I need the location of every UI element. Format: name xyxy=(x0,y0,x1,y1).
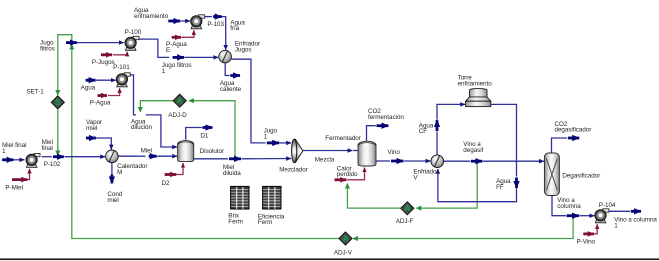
wire Vino a columna from Degasificador xyxy=(552,195,566,216)
node Agua CF bar xyxy=(436,120,439,131)
wire D2 to Disolutor xyxy=(177,163,184,174)
wire Agua CF to Torre enfriamiento xyxy=(437,104,465,119)
svg-text:CO2fermentación: CO2fermentación xyxy=(368,108,404,121)
wire P-Jugos to P-100 xyxy=(113,52,127,55)
svg-text:Vino acolumna: Vino acolumna xyxy=(557,197,581,210)
node Agua caliente outlet bar xyxy=(230,74,240,77)
svg-text:CalentadorM: CalentadorM xyxy=(117,163,147,176)
wire ADJ-V output up to Jugo filtros stream xyxy=(72,45,339,239)
node Agua feed bar xyxy=(86,79,96,82)
node Jugo filtros feed bar xyxy=(66,41,77,44)
svg-text:Mielfinal: Mielfinal xyxy=(42,139,53,152)
node P-Jugos feed bar xyxy=(101,53,112,56)
wire Miel diluida into Mezclador xyxy=(242,158,292,160)
heat-exchanger Enfriador Jugos xyxy=(219,50,232,63)
wire Agua feed to P-101 xyxy=(96,79,116,81)
svg-text:Mezcla: Mezcla xyxy=(315,157,335,164)
wire P-100 outlet to Jugo filtros 1 line xyxy=(139,39,169,57)
wire Jugo 1 into Mezclador xyxy=(280,142,292,144)
wire ADJ-V measure from Vino a columna stream xyxy=(353,217,573,239)
column Degasificador xyxy=(544,153,559,196)
wire P-Agua to P-101 xyxy=(108,88,120,95)
svg-text:AguaFF: AguaFF xyxy=(496,178,511,191)
wire CO2 degasificador out of Degasificador xyxy=(552,138,568,153)
wire CO2 fermentacion out of Fermentador xyxy=(367,126,376,141)
svg-text:AguaCF: AguaCF xyxy=(419,122,434,135)
wire Agua enfriamiento feed to P-103 xyxy=(181,20,190,22)
node Calor perdido feed bar xyxy=(335,178,347,181)
node Vino a columna bar xyxy=(567,214,579,217)
svg-text:P-AguaE: P-AguaE xyxy=(166,41,187,54)
wire ADJ-D measure from Miel diluida stream xyxy=(189,101,235,159)
node D1 outlet bar xyxy=(203,126,213,129)
wire P-Miel to P-102 xyxy=(26,169,30,180)
wire Agua CF up from Enfriador V xyxy=(436,132,438,155)
node P-Vino feed bar xyxy=(583,232,594,235)
svg-text:Miel: Miel xyxy=(141,147,152,154)
wire P-101 outlet Agua dilucion xyxy=(128,75,136,115)
wire ADJ-F output up to Calor perdido stream xyxy=(347,184,400,209)
node Miel bar xyxy=(149,155,157,158)
svg-text:Calorperdido: Calorperdido xyxy=(337,165,358,178)
svg-text:A: A xyxy=(343,234,349,243)
node Agua FF bar xyxy=(515,178,518,189)
table Brix Ferm xyxy=(231,186,249,209)
wire Vino a columna into P-104 xyxy=(580,215,595,217)
table Eficiencia Ferm xyxy=(263,186,281,209)
pump P-103 xyxy=(191,15,205,29)
svg-text:Vino adegasif: Vino adegasif xyxy=(463,141,483,154)
svg-text:Fermentador: Fermentador xyxy=(325,135,361,142)
svg-text:Disolutor: Disolutor xyxy=(200,148,224,155)
wire Agua FF return to Enfriador V xyxy=(438,169,517,202)
heat-exchanger Enfriador V xyxy=(431,155,444,168)
svg-text:A: A xyxy=(177,97,183,106)
svg-text:Degasificador: Degasificador xyxy=(562,173,600,180)
adjust controller ADJ-D xyxy=(173,94,186,107)
svg-text:A: A xyxy=(404,204,410,213)
svg-text:D2: D2 xyxy=(162,180,170,187)
wire Jugo from Enfriador Jugos down to Mezclador xyxy=(231,59,265,143)
node Miel diluida bar xyxy=(229,157,241,160)
wire P-Vino to P-104 xyxy=(594,224,597,234)
wire ADJ-D output down to Agua dilucion stream xyxy=(140,101,173,112)
svg-text:P-104: P-104 xyxy=(599,202,616,209)
svg-text:Vino: Vino xyxy=(388,149,401,156)
node Vapor miel feed bar xyxy=(86,137,96,140)
wire Agua caliente out of Enfriador Jugos xyxy=(225,63,229,76)
node Miel final bar xyxy=(53,155,64,158)
svg-text:P-103: P-103 xyxy=(207,21,224,28)
node P-Agua E feed bar xyxy=(172,36,181,39)
svg-text:Jugo filtros1: Jugo filtros1 xyxy=(162,62,192,75)
svg-text:EficienciaFerm: EficienciaFerm xyxy=(258,213,285,226)
wire Agua fria down into Enfriador Jugos xyxy=(222,17,226,50)
wire Vino a degasif from Enfriador V xyxy=(443,160,470,162)
adjust controller ADJ-F xyxy=(401,202,414,215)
wire Miel final 1 feed to P-102 xyxy=(14,159,25,161)
wire SET-1 output to Miel final stream xyxy=(57,109,59,155)
svg-text:EnfriadorV: EnfriadorV xyxy=(413,169,438,182)
node CO2 degasificador outlet bar xyxy=(568,137,579,140)
wire Calor perdido to Fermentador xyxy=(347,168,365,180)
wire Vino a degasif into Degasificador xyxy=(483,160,544,162)
mixer Mezclador cone xyxy=(292,139,303,162)
svg-text:Vino a columna1: Vino a columna1 xyxy=(614,217,657,230)
svg-text:D1: D1 xyxy=(200,133,208,140)
node Vino a columna 1 outlet bar xyxy=(631,210,641,213)
svg-text:ADJ-D: ADJ-D xyxy=(168,112,187,119)
wire Miel from Calentador M to Disolutor xyxy=(118,155,145,157)
node Miel final 1 feed bar xyxy=(2,158,13,161)
svg-text:Torreenfriamiento: Torreenfriamiento xyxy=(458,75,493,88)
svg-text:Miel final1: Miel final1 xyxy=(2,142,26,155)
wire Cond miel out of Calentador M xyxy=(111,163,113,175)
svg-text:Aguaenfriamiento: Aguaenfriamiento xyxy=(134,7,169,20)
node Cond miel outlet bar xyxy=(111,175,114,184)
svg-text:CO2degasificador: CO2degasificador xyxy=(555,121,592,134)
vessel Disolutor xyxy=(178,141,194,162)
node Jugo filtros 1 bar xyxy=(173,56,185,59)
wire D1 out of Disolutor xyxy=(186,128,202,140)
pump P-101 xyxy=(116,73,130,87)
pump P-100 xyxy=(125,36,139,50)
svg-text:BrixFerm: BrixFerm xyxy=(228,213,243,226)
wire P-103 outlet Agua fria xyxy=(205,16,212,18)
pump P-102 xyxy=(26,153,40,167)
node Vino bar xyxy=(391,160,403,163)
svg-text:ADJ-V: ADJ-V xyxy=(334,250,353,257)
node P-Miel feed bar xyxy=(12,178,27,181)
svg-text:P-Miel: P-Miel xyxy=(5,185,23,192)
svg-text:Condmiel: Condmiel xyxy=(107,191,122,204)
wire ADJ-F measure from Vino a degasif stream xyxy=(416,163,477,208)
svg-text:ADJ-F: ADJ-F xyxy=(396,218,414,225)
wire Vino from Fermentador xyxy=(376,160,390,162)
wire SET-1 input from Jugo filtros junction xyxy=(58,35,72,95)
wire Miel final into Calentador M xyxy=(65,156,106,158)
svg-text:P-100: P-100 xyxy=(125,29,142,36)
adjust controller ADJ-V xyxy=(339,232,352,245)
node Agua enfriamiento feed bar xyxy=(168,20,180,23)
wire Vapor miel feed down into Calentador M xyxy=(96,138,111,149)
svg-text:S: S xyxy=(55,98,61,107)
wire P-104 outlet Vino a columna 1 xyxy=(609,210,630,212)
svg-text:SET-1: SET-1 xyxy=(27,88,45,95)
svg-text:P-101: P-101 xyxy=(113,64,130,71)
svg-text:Aguadilución: Aguadilución xyxy=(131,118,153,131)
wire P-Agua E to P-103 xyxy=(182,30,194,37)
node CO2 fermentacion outlet bar xyxy=(377,124,389,127)
wire P-102 outlet Miel final xyxy=(42,156,52,158)
svg-text:EnfriadorJugos: EnfriadorJugos xyxy=(235,41,260,54)
node Vino a degasif bar xyxy=(471,160,483,163)
wire Jugo filtros 1 into Enfriador Jugos xyxy=(185,56,219,58)
svg-text:Jugofiltros: Jugofiltros xyxy=(40,40,55,53)
wire Torre outlet down Agua FF xyxy=(491,104,517,176)
node Agua fria bar xyxy=(213,15,222,18)
svg-text:P-Agua: P-Agua xyxy=(90,100,111,107)
svg-text:Jugo1: Jugo1 xyxy=(264,128,278,141)
svg-text:Mezclador: Mezclador xyxy=(279,167,308,174)
window bottom border line xyxy=(0,258,659,260)
vessel Fermentador xyxy=(358,141,376,166)
svg-text:Aguafría: Aguafría xyxy=(230,19,245,32)
set controller SET-1 xyxy=(51,96,64,109)
svg-text:P-102: P-102 xyxy=(44,161,61,168)
node D2 feed bar xyxy=(165,173,177,176)
wire Vino into Enfriador V xyxy=(404,160,430,162)
wire Agua dilucion into Disolutor xyxy=(146,115,177,147)
node Jugo 1 bar xyxy=(267,141,279,144)
wire Mezcla from Mezclador to Fermentador xyxy=(303,150,352,152)
svg-text:P-Vino: P-Vino xyxy=(577,238,596,245)
wire Miel diluida from Disolutor xyxy=(194,158,228,160)
cooling tower Torre enfriamiento xyxy=(466,89,491,107)
svg-text:Vapormiel: Vapormiel xyxy=(86,119,102,132)
svg-text:Agua: Agua xyxy=(81,85,96,92)
wire Jugo filtros feed line to P-100 xyxy=(77,42,124,44)
node P-Agua feed bar xyxy=(98,94,107,97)
svg-text:P-Jugos: P-Jugos xyxy=(92,59,115,66)
heat-exchanger Calentador M xyxy=(106,150,119,163)
svg-text:Mieldiluida: Mieldiluida xyxy=(223,164,241,177)
svg-text:Aguacaliente: Aguacaliente xyxy=(220,80,242,93)
pump P-104 xyxy=(595,209,609,223)
